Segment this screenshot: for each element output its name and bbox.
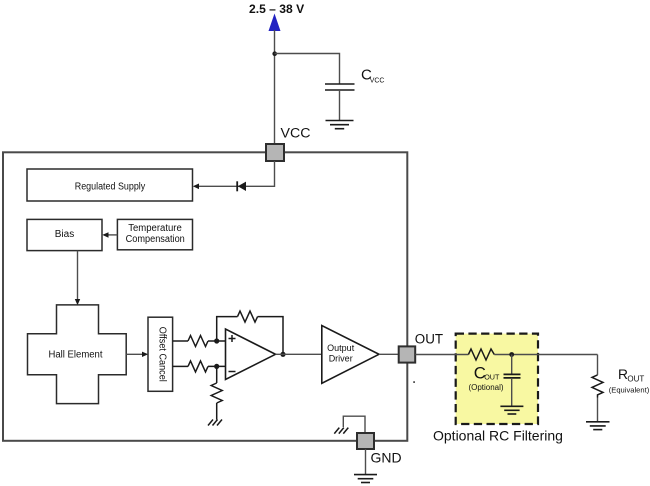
- svg-text:Offset Cancel: Offset Cancel: [156, 327, 167, 382]
- svg-text:GND: GND: [371, 449, 402, 465]
- svg-text:2.5 – 38 V: 2.5 – 38 V: [249, 2, 304, 16]
- svg-text:Bias: Bias: [55, 229, 74, 240]
- svg-text:VCC: VCC: [370, 78, 385, 85]
- svg-text:Compensation: Compensation: [126, 234, 185, 245]
- svg-text:Regulated Supply: Regulated Supply: [75, 181, 146, 192]
- svg-text:Hall Element: Hall Element: [49, 349, 103, 360]
- svg-text:(Equivalent): (Equivalent): [609, 386, 650, 395]
- svg-text:VCC: VCC: [281, 126, 311, 142]
- svg-text:OUT: OUT: [627, 375, 644, 384]
- svg-text:OUT: OUT: [484, 372, 500, 381]
- svg-text:Temperature: Temperature: [128, 223, 182, 234]
- svg-text:OUT: OUT: [415, 331, 443, 346]
- svg-text:Output: Output: [327, 343, 355, 353]
- svg-text:Driver: Driver: [329, 353, 353, 363]
- svg-text:(Optional): (Optional): [468, 383, 503, 392]
- svg-text:Optional RC Filtering: Optional RC Filtering: [433, 427, 563, 443]
